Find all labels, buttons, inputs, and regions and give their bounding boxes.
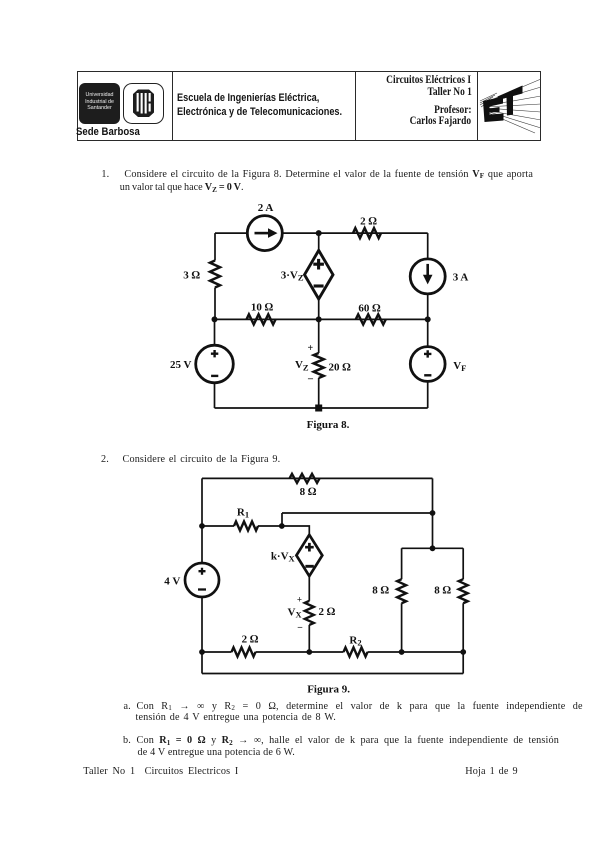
svg-text:2 Ω: 2 Ω [242,634,259,646]
svg-text:8 Ω: 8 Ω [434,585,451,597]
svg-text:2 Ω: 2 Ω [319,606,336,618]
svg-text:R1: R1 [237,507,249,520]
svg-text:4 V: 4 V [164,576,180,588]
svg-text:R2: R2 [349,635,361,648]
svg-text:Figura 9.: Figura 9. [307,684,350,696]
svg-text:k·VX: k·VX [271,551,296,564]
svg-text:+: + [297,594,302,604]
svg-text:8 Ω: 8 Ω [372,585,389,597]
svg-text:8 Ω: 8 Ω [300,486,317,498]
svg-text:VX: VX [288,607,303,620]
svg-text:–: – [297,622,303,632]
